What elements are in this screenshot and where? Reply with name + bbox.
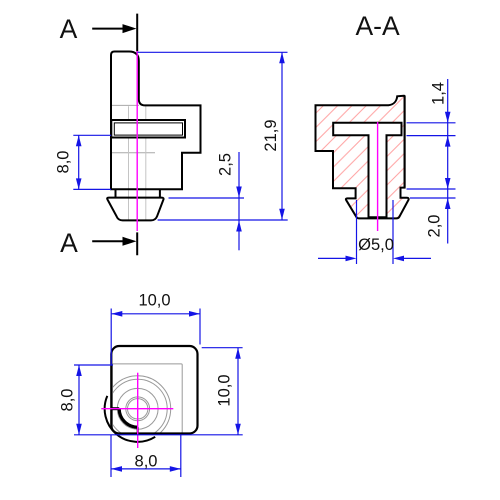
svg-text:Ø5,0: Ø5,0 bbox=[358, 236, 394, 254]
svg-text:21,9: 21,9 bbox=[262, 119, 280, 151]
svg-text:2,5: 2,5 bbox=[217, 153, 235, 176]
svg-text:A-A: A-A bbox=[356, 11, 401, 41]
svg-text:8,0: 8,0 bbox=[135, 453, 158, 471]
svg-text:8,0: 8,0 bbox=[55, 151, 73, 174]
svg-text:10,0: 10,0 bbox=[215, 374, 233, 406]
svg-text:1,4: 1,4 bbox=[430, 82, 448, 105]
svg-text:10,0: 10,0 bbox=[138, 292, 170, 310]
svg-text:A: A bbox=[60, 14, 78, 44]
svg-text:2,0: 2,0 bbox=[426, 215, 444, 238]
svg-text:8,0: 8,0 bbox=[59, 389, 77, 412]
svg-text:A: A bbox=[60, 228, 78, 258]
